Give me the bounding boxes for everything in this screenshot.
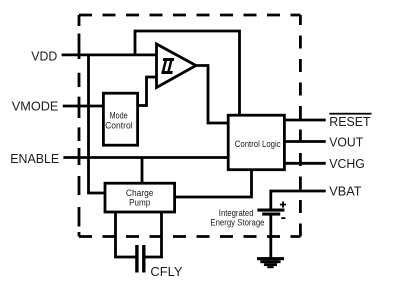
svg-text:Control: Control [105, 120, 133, 131]
wire battery bottom to ground [269, 215, 272, 258]
wire VDD branch down to Charge Pump [89, 55, 107, 193]
svg-text:VMODE: VMODE [12, 99, 59, 114]
svg-text:Energy Storage: Energy Storage [210, 218, 264, 229]
svg-text:Control Logic: Control Logic [235, 139, 281, 150]
svg-text:VCHG: VCHG [329, 156, 365, 171]
svg-text:RESET: RESET [329, 114, 370, 129]
svg-text:VBAT: VBAT [329, 184, 361, 199]
wire VDD branch up and over to Control Logic top [135, 31, 240, 116]
wire VCHG pin stub [284, 162, 326, 165]
IC boundary dashed box [79, 15, 300, 237]
Mode Control box [103, 93, 137, 145]
svg-text:Pump: Pump [129, 198, 150, 209]
ground symbol [257, 257, 284, 268]
battery plus mark [280, 204, 286, 206]
wire ENABLE input [63, 156, 229, 159]
capacitor CFLY plates [135, 245, 145, 273]
svg-text:VDD: VDD [31, 49, 57, 64]
wire VBAT pin and battery top [271, 191, 326, 209]
Charge Pump box [105, 183, 175, 212]
svg-text:VOUT: VOUT [329, 134, 363, 149]
wire op-amp output to Control Logic [195, 66, 229, 124]
comparator hysteresis symbol [161, 58, 174, 74]
wire Charge Pump right to Control Logic bottom [174, 169, 252, 197]
op-amp comparator triangle [157, 44, 197, 88]
RESET overline [329, 113, 371, 115]
wire Charge Pump bottom right pin to CFLY [145, 211, 161, 257]
wire Charge Pump bottom left pin to CFLY [116, 211, 136, 257]
Control Logic box U2 [228, 115, 284, 170]
svg-text:CFLY: CFLY [150, 264, 182, 279]
wire VDD input [62, 54, 158, 57]
svg-text:ENABLE: ENABLE [10, 151, 59, 166]
wire VMODE input [63, 105, 104, 108]
battery minus mark [281, 217, 285, 219]
battery (integrated energy storage) plates [257, 202, 286, 220]
wire VOUT pin stub [284, 140, 326, 143]
wire Mode Control to op-amp lower input [137, 77, 158, 106]
wire ENABLE branch down to Charge Pump top [141, 158, 144, 185]
wire RESET pin stub [284, 119, 326, 122]
